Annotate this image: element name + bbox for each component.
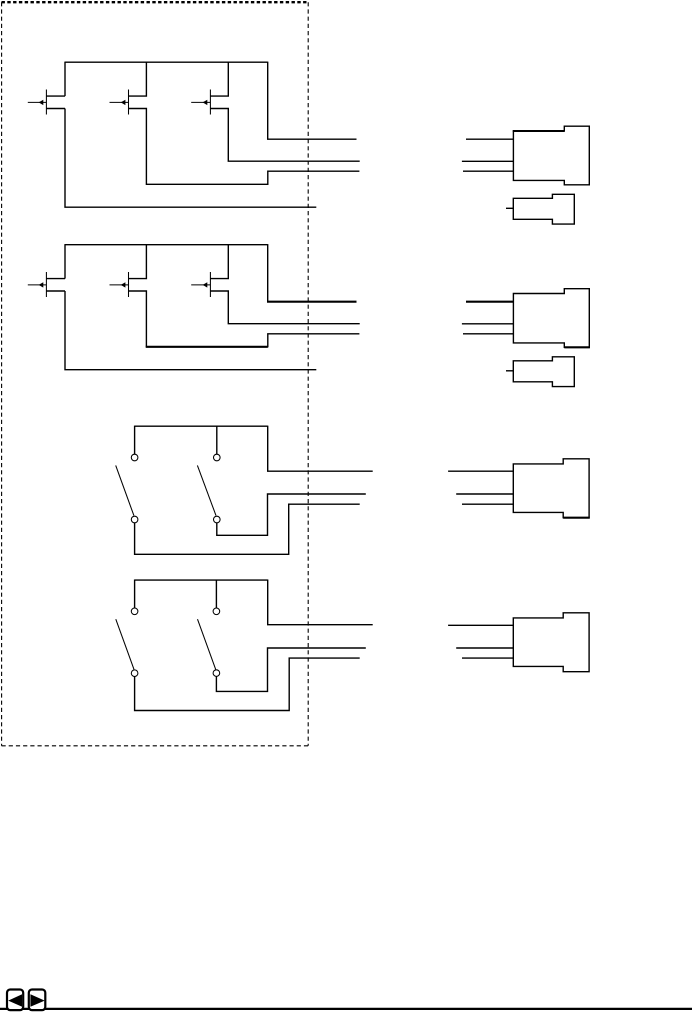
wire: circuit4 top bus — [135, 579, 268, 581]
dashed boundary box bottom edge — [2, 745, 309, 747]
switch SW4 — [198, 580, 220, 677]
transistor Q2 — [110, 90, 129, 115]
wire: circuit2 left vertical lower + long bottom line — [65, 291, 316, 370]
connector CN1b (small) — [513, 194, 574, 224]
wire: CN2 lead 2 — [462, 323, 514, 325]
connector CN3 body — [513, 459, 589, 518]
wire: circuit4 right drop and output line A — [268, 580, 373, 625]
wire: circuit3 top bus — [135, 425, 268, 427]
switch SW3 — [116, 580, 138, 677]
switch SW1 — [116, 426, 138, 523]
wire: circuit1 top bus — [65, 61, 268, 63]
wire: circuit2 right drop — [267, 244, 269, 302]
wire: Q3 emitter down then output line B — [210, 109, 359, 162]
connector CN2b (small) — [513, 357, 574, 387]
wire: circuit1 right drop and output line A — [268, 62, 357, 140]
nav button previous — [7, 990, 23, 1011]
switch SW2 — [197, 426, 220, 523]
connector CN1 body — [513, 126, 589, 185]
wire: CN2b stub lead — [506, 370, 513, 372]
wire: CN1b stub lead — [506, 207, 513, 209]
transistor Q3 — [191, 90, 210, 115]
wire: CN3 lead 1 — [448, 470, 513, 472]
transistor Q1 — [28, 90, 65, 115]
connector CN2 body — [513, 289, 589, 348]
wire: circuit3 right drop and output line A — [268, 426, 373, 472]
wire: bold horizontal segment (highlighted) — [146, 346, 268, 348]
wire: Q6 emitter down then output line B — [210, 291, 359, 324]
transistor Q4 — [28, 272, 65, 297]
wire: CN2 bold cap bottom edge — [564, 346, 590, 348]
wire: CN3 lead 3 — [462, 503, 513, 505]
wire: CN1 lead 1 — [466, 138, 513, 140]
wire: circuit1 left vertical upper (bus to Q1 collector) — [64, 62, 66, 97]
wire: bold output line A (highlighted) — [267, 301, 357, 303]
wire: CN2 lead 1 (bold highlighted) — [466, 301, 513, 303]
transistor Q5 — [110, 272, 129, 297]
wire: CN4 lead 2 — [456, 647, 513, 649]
nav button next — [29, 990, 46, 1011]
dashed boundary box left edge — [1, 2, 3, 746]
wire: CN2 lead 3 — [463, 333, 513, 335]
dashed boundary box right edge — [307, 2, 309, 746]
wire: Q6 collector to bus — [210, 244, 228, 279]
wire: CN1 bold top edge — [513, 130, 565, 132]
wire: CN4 lead 3 — [462, 657, 513, 659]
wire: circuit1 left vertical lower + long bottom line — [65, 109, 316, 208]
wire: Q5 emitter down to bold segment — [129, 291, 147, 347]
wire: circuit2 left vertical upper (bus to Q4 collector) — [64, 244, 66, 279]
wire: Q2 emitter step-down then output line C — [129, 109, 360, 185]
wire: Q2 collector to bus — [129, 62, 147, 97]
wire: SW4 bottom run then output line B — [216, 648, 365, 691]
dashed boundary box top edge (bold) — [2, 1, 309, 3]
wire: CN1 lead 2 — [462, 160, 514, 162]
wire: CN4 lead 1 — [448, 624, 513, 626]
wire: SW3 bottom run then output line C — [135, 658, 360, 710]
connector CN4 body — [513, 613, 589, 672]
wire: SW1 bottom run then output line C — [135, 504, 360, 554]
wire: Q3 collector to bus — [210, 62, 228, 97]
wire: circuit2 top bus — [65, 244, 268, 246]
wire: step up to output line C — [268, 334, 360, 348]
transistor Q6 — [191, 272, 210, 297]
wire: SW2 bottom run then output line B — [217, 494, 366, 535]
wire: CN3 bold cap bottom edge — [563, 517, 590, 519]
wire: Q5 collector to bus — [129, 244, 147, 279]
wire: CN3 lead 2 — [456, 493, 513, 495]
footer horizontal rule — [0, 1008, 692, 1010]
wire: CN1 lead 3 — [463, 170, 513, 172]
